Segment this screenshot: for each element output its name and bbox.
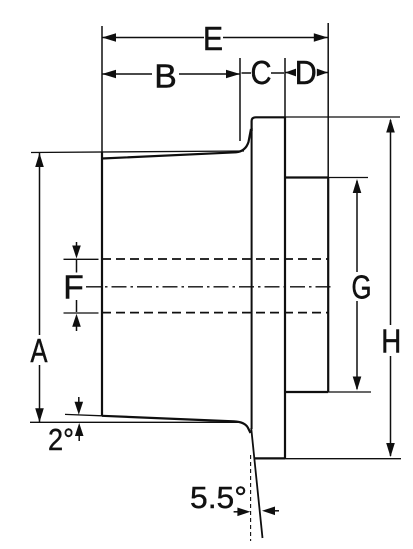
H bottom extension line	[285, 458, 401, 460]
dim E left arrow	[102, 33, 116, 42]
flange rear face	[284, 117, 286, 458]
svg-text:A: A	[31, 332, 48, 369]
body bottom edge (2 deg taper) with left extension	[65, 414, 102, 415]
5.5 deg left arrow (points right)	[234, 511, 240, 513]
body top edge (2 deg taper)	[102, 129, 251, 159]
dim A line upper	[39, 153, 41, 335]
flange top corner + top edge	[252, 117, 285, 131]
extension line left (body front face, above part)	[101, 26, 103, 153]
svg-text:E: E	[203, 20, 223, 57]
dim G top arrow	[353, 179, 362, 193]
dim H line lower	[390, 356, 392, 456]
centerline	[86, 286, 334, 288]
dim B line	[102, 73, 152, 75]
svg-text:F: F	[63, 269, 84, 306]
boss top edge	[285, 176, 328, 178]
bore hidden line bottom	[102, 312, 328, 314]
dim H top arrow	[386, 119, 395, 133]
flange bottom edge	[254, 457, 285, 459]
extension line flange rear above part	[284, 58, 286, 118]
2 deg down arrow	[78, 397, 80, 407]
svg-text:D: D	[295, 54, 317, 91]
extension line boss rear above part	[327, 23, 329, 178]
extension line at fillet start x=240	[239, 58, 241, 141]
dim B right arrow	[226, 70, 240, 79]
dim A line lower	[39, 365, 41, 422]
dim E right arrow	[314, 33, 328, 42]
dim F bottom stub	[76, 300, 78, 312]
dim A top arrow	[35, 153, 44, 167]
svg-text:G: G	[352, 269, 372, 306]
dim F top outside arrow	[76, 242, 78, 252]
F top extension line	[64, 258, 99, 260]
dim H line upper	[390, 120, 392, 325]
dim D right arrow	[317, 69, 328, 77]
dim E line	[102, 37, 204, 39]
dim F top stub	[76, 260, 78, 273]
dim D line	[285, 72, 295, 74]
A bottom extension line	[30, 421, 240, 423]
dim G line lower	[356, 301, 358, 389]
boss bottom edge	[285, 391, 328, 393]
bore hidden line top	[102, 258, 328, 260]
svg-text:5.5°: 5.5°	[190, 480, 247, 515]
dim G line upper	[356, 181, 358, 272]
G top extension line	[328, 177, 368, 179]
svg-text:H: H	[381, 323, 401, 360]
boss rear face	[327, 178, 329, 393]
H top extension line	[285, 116, 400, 118]
F bottom extension line	[64, 312, 99, 314]
dim B left arrow	[102, 70, 116, 79]
A top extension line	[31, 151, 244, 153]
dim A bottom arrow	[35, 408, 44, 422]
5.5 deg right arrow (points left)	[272, 510, 279, 512]
G bottom extension line	[328, 391, 371, 393]
dim H bottom arrow	[386, 443, 395, 457]
svg-text:2°: 2°	[48, 422, 74, 457]
svg-text:B: B	[154, 58, 177, 95]
dim D left arrow	[285, 69, 296, 77]
svg-text:C: C	[251, 54, 272, 91]
5.5 deg vertical reference dashed line	[250, 455, 252, 541]
2 deg up arrow	[78, 430, 80, 441]
dim G bottom arrow	[353, 377, 362, 391]
dim C stubs	[242, 72, 252, 74]
dim F bottom outside arrow	[76, 320, 78, 331]
bottom slant 5.5 deg	[251, 428, 262, 538]
flange front face	[251, 128, 253, 429]
body front face	[101, 152, 103, 417]
